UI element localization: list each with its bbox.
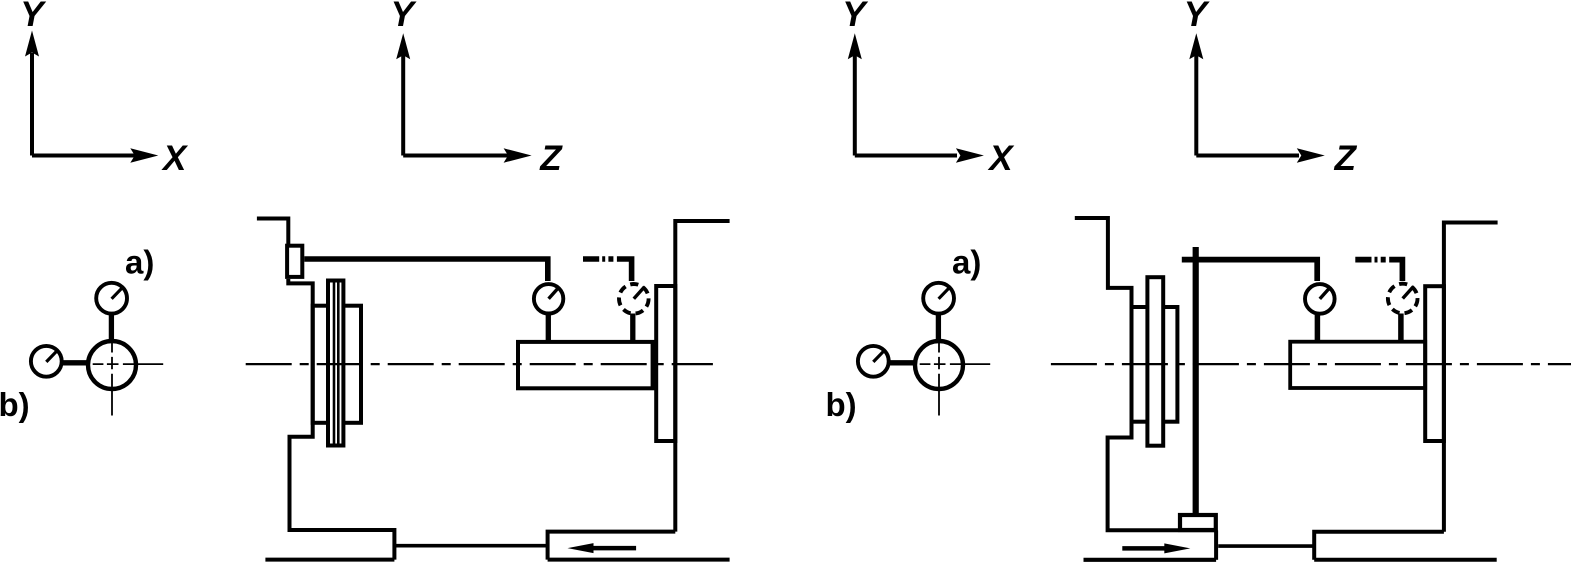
- svg-text:Z: Z: [539, 139, 563, 178]
- svg-text:X: X: [987, 139, 1015, 178]
- svg-text:Y: Y: [842, 0, 868, 34]
- svg-text:Y: Y: [391, 0, 417, 34]
- svg-text:X: X: [161, 139, 189, 178]
- svg-text:Y: Y: [1184, 0, 1210, 34]
- svg-text:Y: Y: [20, 0, 46, 34]
- svg-text:Z: Z: [1334, 139, 1358, 178]
